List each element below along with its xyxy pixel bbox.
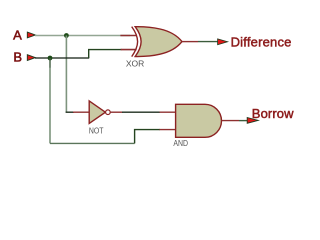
- svg-text:A: A: [13, 28, 22, 43]
- svg-text:B: B: [13, 50, 22, 65]
- wire to Difference terminal: [198, 41, 218, 43]
- input terminal A arrow: [27, 32, 35, 38]
- XOR input-side extra arc: [132, 27, 138, 57]
- svg-text:NOT: NOT: [89, 126, 104, 136]
- output terminal Borrow arrow: [247, 118, 258, 124]
- wire riser to AND input2: [135, 130, 160, 144]
- wire NOT output stub: [110, 111, 122, 113]
- wire A horizontal: [35, 35, 130, 37]
- wire XOR pin B stub: [121, 49, 137, 51]
- svg-text:AND: AND: [173, 138, 188, 148]
- NOT gate U2: [89, 101, 110, 136]
- wire bottom route from B: [50, 142, 135, 144]
- NOT bubble: [106, 110, 111, 115]
- junction node on A: [64, 33, 69, 38]
- AND gate U3: [173, 104, 221, 148]
- svg-text:Difference: Difference: [231, 35, 292, 50]
- wire AND pin2 stub: [160, 129, 177, 131]
- wire B horizontal: [35, 57, 89, 59]
- wire XOR pin A stub: [120, 35, 136, 37]
- wire AND pin1 stub: [160, 111, 177, 113]
- wire NOT pin stub: [73, 111, 90, 113]
- wire A vertical down: [65, 36, 67, 113]
- svg-text:XOR: XOR: [126, 59, 144, 69]
- wire NOT to AND: [122, 111, 160, 113]
- wire AND output stub: [222, 120, 239, 122]
- junction node on B: [48, 56, 53, 61]
- svg-text:Borrow: Borrow: [252, 106, 294, 121]
- XOR gate U1: [126, 27, 182, 69]
- wire B riser to XOR input: [89, 50, 122, 58]
- wire XOR output stub: [182, 41, 198, 43]
- wire NOT input horizontal: [66, 111, 74, 113]
- output terminal Difference arrow: [218, 39, 228, 45]
- wire B vertical down: [49, 58, 51, 68]
- input terminal B arrow: [27, 55, 35, 61]
- wire to Borrow terminal: [239, 120, 248, 122]
